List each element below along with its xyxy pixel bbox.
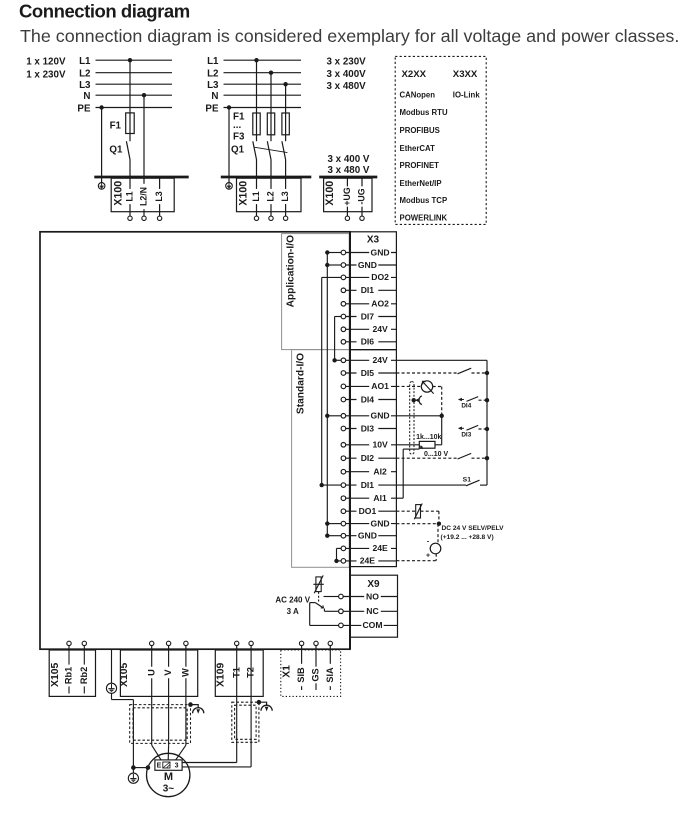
svg-text:DI2: DI2 [361,453,375,463]
terminal X3 row 19: AI1 [346,497,397,499]
svg-text:DI7: DI7 [361,311,375,321]
terminal X3 row 10: DI5 [346,372,397,374]
wire mains L3 (3-phase) [224,83,302,85]
connector X9 box [350,575,398,637]
terminal X3 row 5: AO2 [346,303,397,305]
svg-text:DI1: DI1 [361,285,375,295]
svg-text:AO1: AO1 [371,381,389,391]
terminal L3 of X100 (1-phase) [159,177,161,216]
wire T1 to motor [236,646,238,763]
svg-text:DO2: DO2 [371,272,389,282]
svg-text:X105: X105 [50,662,61,686]
connector X109 brake box [215,650,263,696]
wire DI5 with switch [396,372,457,374]
svg-text:DI4: DI4 [461,403,471,410]
terminal SIB of X1 [299,641,303,645]
svg-text:1 x 120V: 1 x 120V [26,56,66,67]
node L2 tap (3-phase) [269,71,273,75]
svg-text:1 x 230V: 1 x 230V [26,70,66,81]
node PE at earth [131,765,136,770]
fuse F1 (1-phase) [126,113,135,134]
wire switch pole 2 to X100 [270,160,272,177]
terminal T2 of X109 [249,641,253,645]
svg-text:3 x 230V: 3 x 230V [327,56,367,67]
terminal X3 row 15: 10V [346,444,397,446]
svg-text:N: N [83,91,90,102]
svg-text:PROFINET: PROFINET [400,161,440,170]
X100 busbar (3-phase) [221,176,311,179]
wire DI2 with switch [396,457,457,459]
svg-text:SIA: SIA [325,667,335,683]
svg-text:3 x 400V: 3 x 400V [327,69,367,80]
svg-text:Connection diagram: Connection diagram [19,0,190,21]
svg-text:The connection diagram is cons: The connection diagram is considered exe… [20,26,679,46]
svg-text:L1: L1 [124,191,134,201]
node PE at motor frame [146,765,151,770]
Application-I/O group box [282,234,350,350]
X100 busbar (1-phase) [94,176,188,179]
wire to external supply [437,524,439,544]
svg-text:L2/N: L2/N [138,187,148,206]
terminal X3 row 8: DI6 [346,341,397,343]
svg-text:+UG: +UG [342,187,352,205]
switch Q1 (1-phase) blade [126,141,130,159]
wire NO contact stub [324,596,339,598]
terminal X3 row 9: 24V [346,359,397,361]
relay actuator dashed link [318,592,320,603]
wire mains N (1-phase) [96,94,173,96]
wire DO1 return [438,511,440,524]
wire GND row13 external [396,415,441,417]
svg-text:Application-I/O: Application-I/O [286,235,297,308]
meter instrument on AO1 [421,381,432,392]
svg-text:Rb2: Rb2 [79,667,89,684]
svg-text:COM: COM [362,620,382,630]
wire DO2 internal link down to DI1 [322,276,341,278]
terminal W of X105 [184,641,188,645]
brake cable shield (outer) [232,702,259,742]
svg-text:3: 3 [175,763,179,770]
terminal X3 row 4: DI1 [346,289,397,291]
terminal L1 of X100 (1-phase) [129,177,131,216]
wire supply to 24E [435,554,437,561]
node L3 tap (3-phase) [283,82,287,86]
svg-text:0...10 V: 0...10 V [424,451,448,458]
wire PE to motor [111,693,113,699]
svg-text:Modbus RTU: Modbus RTU [400,108,448,117]
wire 24E bridge rows 23-24 [337,547,342,549]
svg-text:GND: GND [371,411,390,421]
svg-text:L1: L1 [207,56,219,67]
switch Q1 pole 1 blade [253,141,257,159]
wire GND row13 to bus [327,415,341,417]
wire mains PE (1-phase) [96,107,173,109]
svg-text:L3: L3 [79,80,91,91]
svg-text:3 x 400 V: 3 x 400 V [328,154,370,165]
wire mains L2 (1-phase) [96,72,173,74]
terminal X3 row 20: DO1 [346,510,397,512]
svg-text:NO: NO [366,591,379,601]
svg-text:24V: 24V [372,324,388,334]
svg-text:Q1: Q1 [109,144,123,155]
terminal X3 row 7: 24V [346,328,397,330]
connector X1 safety box [281,650,341,696]
svg-text:POWERLINK: POWERLINK [400,214,448,223]
svg-text:+: + [426,552,430,559]
terminal X3 row 12: DI4 [346,399,397,401]
svg-text:CANopen: CANopen [400,91,436,100]
Q1 mechanical coupling link [254,147,287,152]
wire GND row22 to bus [327,535,341,537]
svg-text:AI2: AI2 [373,467,387,477]
terminal X9 COM [343,624,397,626]
fuse F3 (3-phase) [282,113,289,135]
node PE tap (3-phase) [227,105,231,109]
wire fuse to switch Q1 [129,134,131,142]
wire Q1 to X100 [129,160,131,177]
svg-text:-: - [427,537,430,546]
svg-text:PE: PE [77,103,91,114]
svg-text:DI3: DI3 [361,423,375,433]
switch DI4 stub [458,398,462,402]
terminal L2 of X100 (3-phase) [270,177,272,216]
relay coil on DO1 [396,510,415,512]
node L1 tap (1-phase) [128,58,132,62]
svg-text:3~: 3~ [163,783,175,794]
wire fuse F3 to switch [285,135,287,141]
wire fuse F2 to switch [270,135,272,141]
svg-text:X2XX: X2XX [402,69,427,80]
connector X3 box [350,232,396,567]
svg-text:U: U [146,669,156,676]
terminal X3 row 21: GND [346,523,397,525]
terminal X3 row 18: DI1 [346,484,397,486]
node N tap (1-phase) [142,93,146,97]
svg-text:X9: X9 [367,579,380,590]
terminal X3 row 1: GND [346,252,397,254]
PE output stub [111,649,113,683]
svg-text:X109: X109 [216,662,227,686]
switch S1 on DI1 [396,484,466,486]
svg-text:X100: X100 [113,181,125,206]
svg-text:PROFIBUS: PROFIBUS [400,126,440,135]
terminal X3 row 17: AI2 [346,471,397,473]
X100 busbar (DC) [319,176,377,179]
shield clamp (motor cable) [188,702,193,707]
fuse F2 (3-phase) [267,113,274,135]
svg-text:F1: F1 [110,121,122,132]
svg-text:1k...10k: 1k...10k [416,434,441,441]
svg-text:NC: NC [366,606,378,616]
svg-text:L2: L2 [79,69,91,80]
wire 24V supply to external switch bus [396,359,487,361]
svg-text:X105: X105 [119,662,130,686]
svg-text:AO2: AO2 [371,299,389,309]
svg-text:DC 24 V SELV/PELV: DC 24 V SELV/PELV [442,525,505,532]
wire GND row2 to bus [327,264,341,266]
terminal X9 NC [343,610,397,612]
terminal GS of X1 [314,641,318,645]
terminal L1 of X100 (3-phase) [256,177,258,216]
connector X105 brake resistor box [49,650,95,696]
potentiometer R 1k...10k [419,441,435,448]
svg-text:Modbus TCP: Modbus TCP [400,196,448,205]
wire external 24V bus vertical [486,360,488,485]
wire mains PE (3-phase) [224,107,302,109]
wire mains L2 (3-phase) [224,72,302,74]
brake cable shield (inner) [235,705,257,739]
svg-text:SIB: SIB [296,667,306,683]
svg-text:X3XX: X3XX [453,69,478,80]
svg-text:W: W [180,668,190,677]
relay coil (X9 relay) [316,577,321,592]
wire L1 to fuse F1 [129,60,131,113]
wire meter return to GND [441,387,443,416]
X3 section divider [350,349,396,351]
wire fuse F1 to switch [256,135,258,141]
svg-text:DI1: DI1 [361,480,375,490]
wire PE down to X100 (3-phase) [228,108,230,177]
wire mains L1 (3-phase) [224,59,302,61]
svg-text:F3: F3 [233,132,245,143]
wire GND row21 to bus [327,523,341,525]
wire COM pole [309,603,311,626]
terminal L3 of X100 (3-phase) [285,177,287,216]
earth symbol at motor [132,768,134,774]
wire 10V to potentiometer [396,444,419,446]
svg-text:...: ... [233,120,241,131]
svg-text:AC 240 V: AC 240 V [275,596,310,605]
connector X100 (1-phase) box [111,178,174,212]
node L1 tap (3-phase) [254,58,258,62]
svg-text:GND: GND [371,518,390,528]
shield loop of analog cable [410,382,414,455]
wire mains L3 (1-phase) [96,83,173,85]
svg-text:3 x 480 V: 3 x 480 V [328,165,370,176]
svg-text:DO1: DO1 [359,506,377,516]
svg-text:10V: 10V [372,440,388,450]
connector X105 motor box [120,650,197,696]
wire mains N (3-phase) [224,94,302,96]
motor cable shield (outer) [130,705,191,744]
relay changeover contact [310,602,316,604]
svg-text:X100: X100 [324,181,336,206]
Standard-I/O group box [292,350,350,568]
wire GND bus vertical (internal) [326,253,328,536]
wire N down to X100 [143,95,145,176]
terminal X3 row 24: 24E [346,560,397,562]
wire L3 to fuse F3 [285,84,287,113]
svg-text:X100: X100 [238,181,250,206]
svg-text:AI1: AI1 [373,493,387,503]
svg-text:L1: L1 [79,56,91,67]
terminal V of X105 [166,641,170,645]
terminal X3 row 16: DI2 [346,457,397,459]
connector X100 (3-phase) box [237,178,302,212]
svg-text:L3: L3 [280,191,290,201]
wire DI7 internal link down to 24V [335,316,342,318]
svg-text:Rb1: Rb1 [64,667,74,684]
terminal -UG of X100 (DC) [361,177,363,216]
fieldbus option box X2XX/X3XX [395,56,486,224]
motor terminal box [155,760,182,770]
svg-text:Q1: Q1 [231,144,245,155]
svg-text:M: M [164,771,173,783]
terminal T1 of X109 [235,641,239,645]
svg-text:E: E [157,763,162,770]
terminal Rb2 of X105 [82,641,86,645]
svg-text:DI6: DI6 [361,337,375,347]
terminal X3 row 14: DI3 [346,428,397,430]
shield ground clamp (analog cable) [412,398,416,402]
svg-text:L3: L3 [154,191,164,201]
main box right edge (thick) [349,232,351,649]
motor lead V diagonal [167,745,169,760]
svg-text:Standard-I/O: Standard-I/O [296,353,307,414]
wire GND down to potentiometer [441,416,443,445]
motor lead W diagonal [176,745,186,760]
svg-text:DI3: DI3 [461,431,471,438]
potentiometer wiper arrow to AI1 [396,497,403,499]
terminal X9 NO [343,596,397,598]
external 24V supply source [430,543,441,554]
svg-text:DI5: DI5 [361,368,375,378]
svg-text:24E: 24E [360,556,376,566]
svg-text:X1: X1 [281,665,292,678]
wire T2 to motor [250,646,252,767]
svg-text:N: N [211,91,218,102]
wire GND row1 to bus [327,252,341,254]
fuse F1 (3-phase) [253,113,260,135]
terminal X3 row 23: 24E [346,547,397,549]
svg-text:DI4: DI4 [361,394,375,404]
wire AO1 to meter [396,385,421,387]
svg-text:EtherNet/IP: EtherNet/IP [400,179,442,188]
wire mains L1 (1-phase) [96,59,173,61]
PE terminal symbol (output) [106,683,116,693]
connector X100 (DC) box [324,178,372,212]
switch Q1 pole 3 blade [282,141,286,159]
terminal X3 row 13: GND [346,415,397,417]
switch DI3 stub [458,427,462,431]
svg-text:(+19.2 ... +28.8 V): (+19.2 ... +28.8 V) [441,534,494,541]
svg-text:L2: L2 [207,69,219,80]
shield clamp (brake cable) [257,700,262,705]
svg-text:24E: 24E [372,543,388,553]
wire PE down to X100 [101,108,103,177]
terminal X3 row 2: GND [346,264,397,266]
terminal X3 row 6: DI7 [346,316,397,318]
motor M 3~ circle [147,753,190,796]
svg-text:S1: S1 [463,477,472,484]
switch Q1 pole 2 blade [267,141,271,159]
svg-text:GS: GS [311,668,321,681]
PE terminal symbol (3-phase) [228,178,230,182]
svg-text:24V: 24V [372,355,388,365]
motor cable shield (inner) [133,708,187,740]
terminal +UG of X100 (DC) [346,177,348,216]
svg-text:L3: L3 [207,80,219,91]
svg-text:GND: GND [371,247,390,257]
svg-text:GND: GND [358,260,377,270]
svg-text:3 A: 3 A [287,607,299,616]
svg-text:EtherCAT: EtherCAT [400,144,436,153]
svg-text:3 x 480V: 3 x 480V [327,81,367,92]
terminal X3 row 22: GND [346,535,397,537]
wire L1 to fuse F1 [256,60,258,113]
wire switch pole 3 to X100 [285,160,287,177]
terminal X3 row 3: DO2 [346,276,397,278]
terminal L2/N of X100 (1-phase) [143,177,145,216]
svg-text:V: V [163,669,173,676]
terminal Rb1 of X105 [67,641,71,645]
terminal U of X105 [150,641,154,645]
svg-text:PE: PE [205,103,219,114]
wire GND row21 external [396,523,439,525]
svg-text:L1: L1 [251,191,261,201]
inverter main enclosure box [40,232,350,649]
svg-text:GND: GND [358,531,377,541]
terminal SIA of X1 [328,641,332,645]
PE terminal symbol (1-phase) [101,178,103,182]
svg-text:-UG: -UG [356,188,366,204]
svg-text:IO-Link: IO-Link [453,91,481,100]
svg-text:L2: L2 [265,191,275,201]
wire switch pole 1 to X100 [256,160,258,177]
node PE tap (1-phase) [99,105,103,109]
svg-text:X3: X3 [367,234,380,245]
wire L2 to fuse F2 [270,73,272,113]
terminal X3 row 11: AO1 [346,385,397,387]
motor lead U diagonal [152,745,162,760]
